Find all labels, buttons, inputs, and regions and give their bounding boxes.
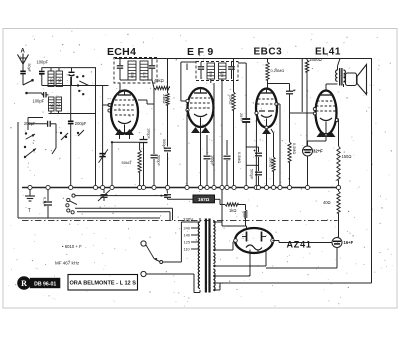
wire heater y211.8 bbox=[77, 212, 170, 221]
tube ECH4 cathode bbox=[118, 121, 131, 133]
svg-text:500pF: 500pF bbox=[157, 155, 161, 166]
tube EL41 heater arrows bbox=[317, 131, 336, 137]
wire row2 bottom y113.5 bbox=[49, 111, 97, 114]
wire 16uF down bbox=[266, 248, 337, 269]
label 50pF small bbox=[0, 0, 1, 1]
label ECH4 bbox=[107, 46, 136, 58]
svg-text:110: 110 bbox=[184, 247, 191, 252]
resistor R 0.25M top bbox=[266, 59, 285, 89]
tube AZ41 anodes bbox=[242, 232, 266, 242]
svg-text:1kΩ: 1kΩ bbox=[229, 208, 236, 213]
label 50pF bbox=[27, 64, 31, 73]
logo circle bbox=[17, 276, 31, 290]
svg-text:A: A bbox=[21, 49, 26, 55]
transformer heater secondary 1 bbox=[213, 253, 215, 267]
wire EBC3 cathode down bbox=[266, 129, 268, 188]
transformer HT secondary bbox=[213, 221, 215, 251]
svg-text:140: 140 bbox=[184, 233, 191, 238]
wire left border x18 bbox=[17, 122, 19, 218]
mains terminal 2 bbox=[141, 271, 200, 292]
wire col x102.6 bbox=[102, 86, 104, 188]
coil L6 740 bbox=[56, 97, 62, 111]
resistor R 150 bbox=[337, 120, 352, 188]
wire x256 col bbox=[255, 114, 257, 188]
switch contacts lower-left bbox=[24, 132, 36, 158]
wire mid y85.5 bbox=[42, 85, 109, 87]
svg-text:125: 125 bbox=[184, 240, 191, 245]
tube EBC3 grids bbox=[257, 99, 276, 104]
label EL41 bbox=[315, 47, 341, 58]
svg-text:660: 660 bbox=[209, 71, 213, 77]
wire x176 col bbox=[181, 62, 196, 101]
wire T2 top bbox=[196, 58, 238, 60]
wire EBC3 right pin down bbox=[277, 104, 281, 188]
svg-text:0,25MΩ: 0,25MΩ bbox=[271, 68, 285, 73]
mains terminal 1 bbox=[141, 241, 146, 246]
svg-text:• 6010 + F: • 6010 + F bbox=[62, 244, 82, 249]
svg-text:10mΩ: 10mΩ bbox=[268, 157, 272, 167]
svg-text:T: T bbox=[28, 208, 31, 214]
output transformer T3 bbox=[326, 59, 345, 88]
tube EF9 cathode bbox=[194, 114, 207, 127]
wire heater y195.6 bbox=[75, 195, 168, 197]
resistor R 25k ECH4 bbox=[162, 93, 169, 105]
svg-text:16+F: 16+F bbox=[344, 240, 354, 245]
wire top-left y67.6 bbox=[42, 67, 96, 69]
capacitor heater bypass bbox=[164, 190, 171, 200]
coil T2 secondary bbox=[219, 63, 227, 79]
svg-text:32+F: 32+F bbox=[313, 149, 323, 154]
label 6010F bbox=[62, 244, 82, 249]
tube EL41 envelope bbox=[316, 91, 337, 135]
label 100pF top bbox=[37, 60, 49, 65]
wire switch to primary bbox=[163, 222, 201, 262]
chassis dash-dot line bbox=[22, 219, 338, 221]
wire bottom secondary bbox=[215, 283, 221, 290]
svg-text:MF 467 kHz: MF 467 kHz bbox=[55, 261, 80, 266]
wire EBC3 plate up bbox=[266, 89, 268, 94]
svg-text:40Ω: 40Ω bbox=[323, 200, 331, 205]
title box ORA BELMONTE bbox=[68, 275, 138, 291]
svg-text:100pF: 100pF bbox=[210, 155, 214, 166]
ground symbol bbox=[25, 190, 35, 215]
speaker bbox=[344, 65, 367, 95]
switch antenna arm bbox=[23, 79, 34, 85]
capacitor 500pF EF9 bbox=[224, 140, 241, 188]
tube EBC3 side pins bbox=[255, 102, 278, 129]
wire 25uF top bbox=[238, 63, 246, 119]
tube EBC3 diodes bbox=[259, 110, 274, 112]
coil L2 760 bbox=[56, 68, 63, 87]
tube AZ41 side pins bbox=[234, 239, 275, 243]
tube ECH4 anode bbox=[118, 91, 131, 96]
svg-text:25kΩ: 25kΩ bbox=[162, 94, 167, 103]
switch mains bank bbox=[66, 194, 77, 214]
transformer core bbox=[205, 219, 211, 293]
wire bottom y283 bbox=[214, 282, 372, 284]
transformer primary winding bbox=[198, 218, 200, 293]
tube EL41 top cap bbox=[325, 84, 327, 91]
wire fil bottom bbox=[213, 253, 250, 277]
trimmer below bus bbox=[98, 190, 110, 202]
wire x187 col bbox=[186, 64, 189, 188]
label MF 467 kHz bbox=[55, 261, 80, 266]
wire HT junction bbox=[221, 225, 223, 227]
label EF9 bbox=[187, 46, 217, 58]
wire x170 seg bbox=[169, 87, 171, 89]
tube ECH4 grids bbox=[114, 100, 135, 115]
svg-text:25+F: 25+F bbox=[239, 113, 243, 122]
capacitor T2 right bbox=[228, 62, 235, 79]
tube EF9 anode bbox=[194, 88, 207, 93]
wire x302 col bbox=[290, 59, 315, 114]
capacitor antenna series bbox=[20, 63, 26, 85]
svg-text:167Ω: 167Ω bbox=[198, 197, 210, 202]
svg-text:660: 660 bbox=[221, 71, 225, 77]
svg-text:100pF: 100pF bbox=[37, 60, 49, 65]
svg-text:45kΩ: 45kΩ bbox=[154, 78, 164, 83]
label 100pF row2 bbox=[33, 99, 45, 104]
trimmer antenna bbox=[69, 68, 75, 86]
svg-text:ECH4: ECH4 bbox=[107, 46, 136, 58]
tube AZ41 filament bbox=[246, 245, 262, 253]
node circles on ground bus bbox=[28, 185, 341, 189]
capacitor 500pF a bbox=[151, 88, 161, 188]
label AZ41 bbox=[287, 240, 312, 250]
svg-text:0,1μF: 0,1μF bbox=[43, 197, 47, 207]
label 200pF left bbox=[24, 121, 36, 126]
wire heater y208.3 bbox=[75, 208, 173, 220]
wire heater to AZ41 fil bbox=[213, 251, 266, 266]
coil L5 660 bbox=[49, 97, 55, 111]
resistor R 167 box bbox=[168, 195, 215, 203]
svg-text:EL41: EL41 bbox=[315, 47, 341, 58]
tube EF9 side pins bbox=[186, 99, 189, 111]
svg-text:100pF: 100pF bbox=[147, 128, 151, 139]
capacitor 32uF electrolytic bbox=[303, 146, 324, 188]
tube ECH4 heater arrows bbox=[115, 129, 134, 139]
resistor R 25k EF9 bbox=[229, 59, 236, 188]
capacitor 100pF EF9 bbox=[204, 135, 214, 188]
resistor R 45k bbox=[154, 86, 169, 89]
capacitor 500pF EBC3 bbox=[246, 147, 262, 188]
tube EL41 cathode bbox=[320, 118, 332, 130]
svg-text:50pF: 50pF bbox=[27, 64, 31, 73]
svg-text:DB 96-01: DB 96-01 bbox=[34, 281, 56, 287]
capacitor 200pF right bbox=[68, 77, 74, 188]
svg-text:670: 670 bbox=[143, 72, 147, 78]
capacitor 0.1uF bbox=[43, 190, 53, 219]
capacitor T2 left bbox=[198, 62, 204, 79]
antenna A bbox=[18, 54, 29, 65]
transformer primary taps bbox=[184, 226, 200, 252]
svg-text:240: 240 bbox=[184, 226, 191, 231]
IF transformer T2 dashed box bbox=[196, 62, 238, 81]
svg-text:25kΩ: 25kΩ bbox=[229, 95, 234, 104]
svg-text:EBC3: EBC3 bbox=[254, 47, 283, 58]
ground bus y187.5 bbox=[22, 187, 341, 189]
wire row2 y93 bbox=[25, 92, 42, 95]
svg-text:100pF: 100pF bbox=[33, 99, 45, 104]
tube ECH4 side pins bbox=[103, 103, 112, 112]
tube EBC3 heater arrow bbox=[262, 128, 271, 134]
tube EBC3 anode bbox=[261, 89, 272, 94]
label A bbox=[21, 49, 26, 55]
resistor R 1k bbox=[215, 199, 246, 213]
svg-text:660: 660 bbox=[131, 72, 135, 78]
IF transformer T1 dashed box bbox=[114, 58, 157, 84]
transformer heater secondary 2 bbox=[213, 269, 215, 291]
svg-text:1500Ω: 1500Ω bbox=[309, 57, 323, 62]
tube EL41 side pins bbox=[313, 108, 338, 137]
wire bottom-left y218 bbox=[18, 217, 160, 219]
switch contacts lower-mid bbox=[60, 130, 84, 140]
tube ECH4 envelope bbox=[111, 91, 138, 134]
capacitor 500pF b bbox=[162, 139, 171, 151]
wire ECH4 plate right bbox=[138, 100, 154, 104]
label 220V bbox=[183, 217, 193, 222]
wire T1 bottoms bbox=[120, 79, 152, 81]
label EBC3 bbox=[254, 47, 283, 58]
wire EF9 cathode down bbox=[200, 127, 202, 188]
svg-text:AZ41: AZ41 bbox=[287, 240, 312, 250]
resistor R 0.5M det bbox=[288, 113, 296, 188]
label 200pF right bbox=[75, 121, 87, 126]
tube EL41 anode bbox=[320, 94, 332, 96]
capacitor 25uF electrolytic bbox=[239, 113, 250, 188]
capacitor T1 left bbox=[117, 58, 123, 80]
capacitor coupling bbox=[268, 84, 295, 114]
wire HT top to AZ41 bbox=[213, 222, 246, 230]
wire col x112 bbox=[111, 141, 140, 187]
wire AZ41 cathode right bbox=[273, 241, 333, 243]
svg-text:150Ω: 150Ω bbox=[342, 154, 352, 159]
wire x152 seg bbox=[152, 80, 154, 88]
capacitor 100pF ECH4 bbox=[140, 128, 151, 188]
svg-text:660: 660 bbox=[50, 103, 54, 109]
svg-text:ORA BELMONTE - L 12 S: ORA BELMONTE - L 12 S bbox=[69, 280, 136, 286]
wire 40ohm to 16uF bbox=[337, 236, 339, 239]
svg-text:500pF: 500pF bbox=[250, 169, 254, 180]
wire ECH4 grid cap to T1 bbox=[116, 84, 120, 96]
resistor R 50k bbox=[122, 142, 142, 187]
coil T2 primary bbox=[207, 63, 215, 79]
capacitor T1 right bbox=[149, 58, 155, 80]
svg-text:0,5MΩ: 0,5MΩ bbox=[237, 152, 241, 163]
coil T1 primary 660 bbox=[128, 61, 136, 80]
svg-text:500pF: 500pF bbox=[162, 139, 166, 150]
svg-text:50kΩ: 50kΩ bbox=[122, 160, 131, 165]
capacitor 100pF row2 bbox=[42, 92, 49, 98]
capacitor 100pF ant bbox=[39, 68, 45, 86]
wire EF9 grid left bbox=[200, 61, 202, 63]
tube EF9 envelope bbox=[188, 88, 214, 127]
wire col x95.5 bbox=[95, 68, 97, 188]
svg-text:660: 660 bbox=[50, 78, 54, 84]
svg-text:R: R bbox=[21, 279, 27, 288]
svg-text:760: 760 bbox=[58, 78, 62, 84]
svg-text:EF9: EF9 bbox=[187, 46, 217, 58]
resistor 45k label bbox=[154, 78, 164, 83]
coil T1 secondary 670 bbox=[140, 61, 148, 80]
wire x214 col bbox=[211, 79, 222, 190]
wire x222 col bbox=[221, 190, 223, 227]
mains fuse switch bbox=[146, 245, 163, 264]
capacitor 200pF left bbox=[28, 118, 56, 131]
svg-text:740: 740 bbox=[57, 103, 61, 109]
wire x167 col bbox=[167, 59, 169, 188]
resistor R 40 bbox=[323, 188, 340, 238]
tube EBC3 cathode bbox=[261, 115, 272, 128]
resistor R 10M bbox=[268, 129, 275, 188]
switch contacts row1 bbox=[76, 75, 88, 95]
wire top bus y58 bbox=[115, 58, 372, 60]
svg-text:200pF: 200pF bbox=[75, 121, 87, 126]
svg-text:220V: 220V bbox=[183, 217, 193, 222]
coil L1 660 bbox=[48, 68, 54, 87]
wire HT mid to AZ41 bbox=[213, 242, 234, 251]
wire col x56 down bbox=[52, 124, 56, 154]
trimmer padder bbox=[99, 149, 108, 163]
svg-text:0,5MΩ: 0,5MΩ bbox=[292, 143, 296, 154]
tube AZ41 envelope bbox=[235, 228, 273, 253]
resistor vert x245 bbox=[244, 205, 247, 227]
wire right border B+ x372 bbox=[371, 59, 373, 284]
tube EBC3 envelope bbox=[256, 89, 277, 128]
capacitor 16uF electrolytic bbox=[332, 238, 354, 248]
tube EL41 grids bbox=[316, 101, 336, 111]
choke 1500ohm bbox=[305, 57, 322, 146]
tube EF9 heater arrows bbox=[191, 127, 210, 133]
tube EF9 grids bbox=[190, 98, 211, 108]
logo plate DB 96-01 bbox=[30, 278, 61, 288]
wire EL41 cathode net bbox=[308, 130, 327, 146]
